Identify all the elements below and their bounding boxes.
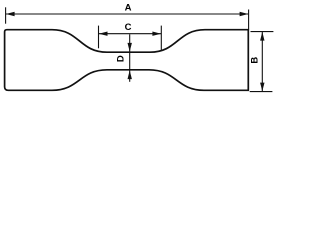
dimension B extension line bottom [250,91,273,93]
dimension B extension line top [251,31,274,33]
specimen outline (dog-bone tensile bar) [5,30,249,91]
svg-text:B: B [250,57,261,64]
dimension D line (vertical through gauge) [129,34,131,82]
svg-text:D: D [116,55,127,62]
dimension C arrowhead right [152,32,161,36]
dimension B line [261,32,263,91]
dimension C arrowhead left [99,32,108,36]
svg-text:C: C [125,22,132,33]
dimension C line [99,33,161,35]
dimension A extension line left [5,7,7,23]
dimension C extension line right [160,26,162,50]
dimension B arrowhead top (points up) [260,32,264,41]
dimension A arrowhead right [240,12,249,16]
dimension D arrowhead top (points down at gauge top edge) [128,43,132,52]
dimension A extension line right [248,10,250,30]
dimension A line [6,13,248,15]
dimension B arrowhead bottom (points down) [260,83,264,92]
dimension D arrowhead bottom (points up at gauge bottom edge) [128,70,132,79]
svg-text:A: A [125,3,132,14]
dimension A arrowhead left [6,12,15,16]
dimension C extension line left [98,26,100,49]
